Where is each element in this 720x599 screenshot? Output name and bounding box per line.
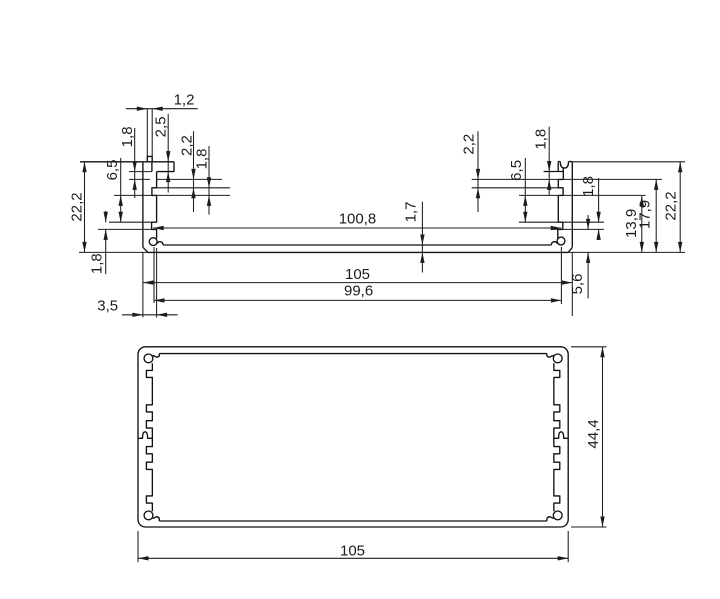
ext 187.8 left [152,187,230,189]
corner boss bottom-left [144,511,153,520]
ext vertical 561.4 down [560,247,562,304]
svg-text:44,4: 44,4 [585,419,602,448]
dim 6,5 right [524,158,526,222]
svg-text:6,5: 6,5 [104,160,121,181]
ext horizontals 44,4 [571,347,607,527]
svg-text:99,6: 99,6 [344,283,373,300]
svg-text:1,8: 1,8 [194,149,211,170]
svg-text:17,9: 17,9 [637,200,654,229]
dim 5,6 [587,215,589,298]
svg-text:22,2: 22,2 [68,192,85,221]
inner top edge [159,353,547,355]
dim 17,9 [655,179,657,252]
left wall bottom chamfer [143,247,148,252]
right wall inner face [554,363,560,511]
svg-text:105: 105 [345,266,370,283]
ext 1,8 left upper [129,171,152,173]
corner boss top-right [553,354,562,363]
svg-text:1,8: 1,8 [532,129,549,150]
dim 2,5 [167,114,169,193]
svg-text:5,6: 5,6 [569,274,586,295]
enclosure outer profile [138,347,568,527]
dim 2,2 left [193,131,195,212]
left wall inner face [146,363,152,511]
ext 195.4 left [114,194,230,196]
svg-text:2,2: 2,2 [461,134,478,155]
left top tab [147,156,152,161]
cover panel top edge [163,244,551,246]
dim 13,9 [641,196,643,252]
ext 195.4 right [519,194,646,196]
left wall mid slit and arch [138,432,152,439]
cover panel bottom edge [148,251,568,253]
svg-text:3,5: 3,5 [97,298,118,315]
svg-text:1,8: 1,8 [580,176,597,197]
ext vertical 156.6 down [156,248,158,318]
left flange right face + bottom [157,162,174,172]
dim 1,2 [126,108,198,110]
ext verticals bottom 105 [138,531,568,562]
ext 187.8 right [472,187,559,189]
ext 222.2 right [519,221,604,223]
corner boss top-left [144,354,153,363]
ext vertical 142.9 down [142,252,144,317]
ext 222.2 left [109,221,152,223]
ext top edge right [572,161,685,163]
dim 1,8 lower-left [105,211,107,274]
dim 1,8 far-right step [598,178,600,240]
left screw boss [149,238,157,246]
svg-text:105: 105 [340,543,365,560]
left hook lip [157,242,163,245]
ext vertical 154 down [153,247,155,303]
right inner wall slot line [562,168,564,179]
dim 99,6 [154,299,561,301]
svg-text:100,8: 100,8 [339,211,377,228]
svg-text:2,5: 2,5 [153,116,170,137]
right hook lip [551,242,557,245]
ext panel bottom left [79,251,148,253]
right wall outer face [571,162,573,248]
dim 3,5 [122,314,178,316]
ext 179.4 left [129,178,222,180]
right screw boss [557,237,565,245]
ext 229.4 right [553,228,604,230]
dim 6,5 left [120,158,122,222]
right teeth [558,179,564,238]
ext verticals for 1,2 [147,109,152,157]
dim 2,2 right [477,131,479,212]
right column left face [557,162,559,172]
left teeth [152,172,157,239]
dim 1,8 right [548,127,550,195]
svg-text:1,7: 1,7 [403,202,420,223]
svg-text:1,2: 1,2 [174,92,195,109]
right wall mid slit and arch [554,432,568,439]
dim 1,7 [421,202,423,273]
svg-text:1,8: 1,8 [119,126,136,147]
dim 22,2 right [679,162,681,253]
dim 1,8 second-left [208,146,210,215]
right top edge with U-notch [558,162,572,169]
inner bottom edge [159,520,547,522]
svg-text:6,5: 6,5 [508,160,525,181]
corner boss bottom-right [553,511,562,520]
dim 105 top view [143,282,572,284]
top view: left wall outer face [142,162,144,248]
dim 22,2 left [84,162,86,253]
ext panel bottom right [568,251,685,253]
ext 179.4 right pair [472,178,662,180]
dim 1,8 upper-left [134,128,136,198]
ext 229.4 left [98,228,152,230]
top edge line (with left extension) [80,161,174,163]
svg-text:22,2: 22,2 [663,191,680,220]
dim 44,4 [602,347,604,527]
right wall bottom chamfer [568,247,572,252]
dim 105 bottom [138,557,568,559]
right ledge line [544,171,564,173]
ext vertical 573 down [571,252,573,316]
svg-text:1,8: 1,8 [88,253,105,274]
left inner wall slot line [151,162,153,172]
dim 100,8 [153,227,561,229]
